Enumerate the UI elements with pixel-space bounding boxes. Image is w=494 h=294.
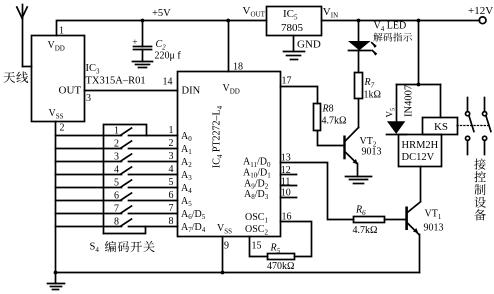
svg-text:13: 13 (281, 152, 291, 163)
svg-text:+5V: +5V (152, 8, 171, 19)
svg-text:DC12V: DC12V (402, 152, 435, 163)
svg-text:IN4007: IN4007 (404, 85, 415, 117)
svg-text:6: 6 (114, 190, 119, 201)
svg-text:3: 3 (169, 151, 174, 162)
svg-text:9: 9 (224, 241, 229, 252)
svg-text:1: 1 (114, 125, 119, 136)
svg-text:5: 5 (114, 177, 119, 188)
svg-text:8: 8 (114, 216, 119, 227)
svg-text:+: + (132, 38, 137, 48)
svg-text:2: 2 (169, 138, 174, 149)
svg-text:9013: 9013 (362, 147, 382, 158)
svg-text:7805: 7805 (281, 22, 304, 34)
svg-text:V4 LED: V4 LED (374, 21, 407, 33)
svg-text:DIN: DIN (182, 86, 201, 97)
svg-text:KS: KS (434, 121, 448, 133)
svg-text:17: 17 (282, 76, 292, 87)
svg-text:4.7kΩ: 4.7kΩ (353, 225, 378, 236)
svg-text:9013: 9013 (424, 223, 444, 234)
svg-text:1: 1 (59, 26, 64, 37)
svg-text:1kΩ: 1kΩ (364, 90, 381, 101)
svg-text:11: 11 (281, 176, 291, 187)
svg-text:16: 16 (282, 211, 292, 222)
svg-text:IC4 PT2272–L4: IC4 PT2272–L4 (212, 105, 224, 168)
svg-text:18: 18 (233, 62, 243, 73)
svg-text:6: 6 (169, 190, 174, 201)
svg-text:15: 15 (252, 241, 262, 252)
svg-text:4: 4 (169, 164, 174, 175)
svg-text:8: 8 (169, 216, 174, 227)
svg-text:4: 4 (114, 164, 119, 175)
svg-text:7: 7 (114, 203, 119, 214)
svg-text:470kΩ: 470kΩ (267, 261, 294, 272)
svg-text:2: 2 (114, 138, 119, 149)
svg-text:10: 10 (281, 188, 291, 199)
svg-text:R8: R8 (322, 104, 334, 115)
svg-text:2: 2 (60, 123, 65, 134)
svg-text:GND: GND (297, 39, 321, 51)
svg-text:1: 1 (169, 125, 174, 136)
svg-text:3: 3 (114, 151, 119, 162)
svg-text:3: 3 (86, 93, 91, 104)
svg-text:14: 14 (163, 77, 173, 88)
svg-text:+12V: +12V (468, 5, 493, 17)
svg-text:220μ f: 220μ f (155, 51, 182, 62)
svg-text:5: 5 (169, 177, 174, 188)
svg-text:TX315A–R01: TX315A–R01 (86, 76, 146, 87)
svg-text:OUT: OUT (59, 85, 82, 97)
svg-text:7: 7 (169, 203, 174, 214)
svg-text:4.7kΩ: 4.7kΩ (322, 116, 347, 127)
svg-text:12: 12 (281, 165, 291, 176)
svg-text:HRM2H: HRM2H (402, 140, 439, 151)
